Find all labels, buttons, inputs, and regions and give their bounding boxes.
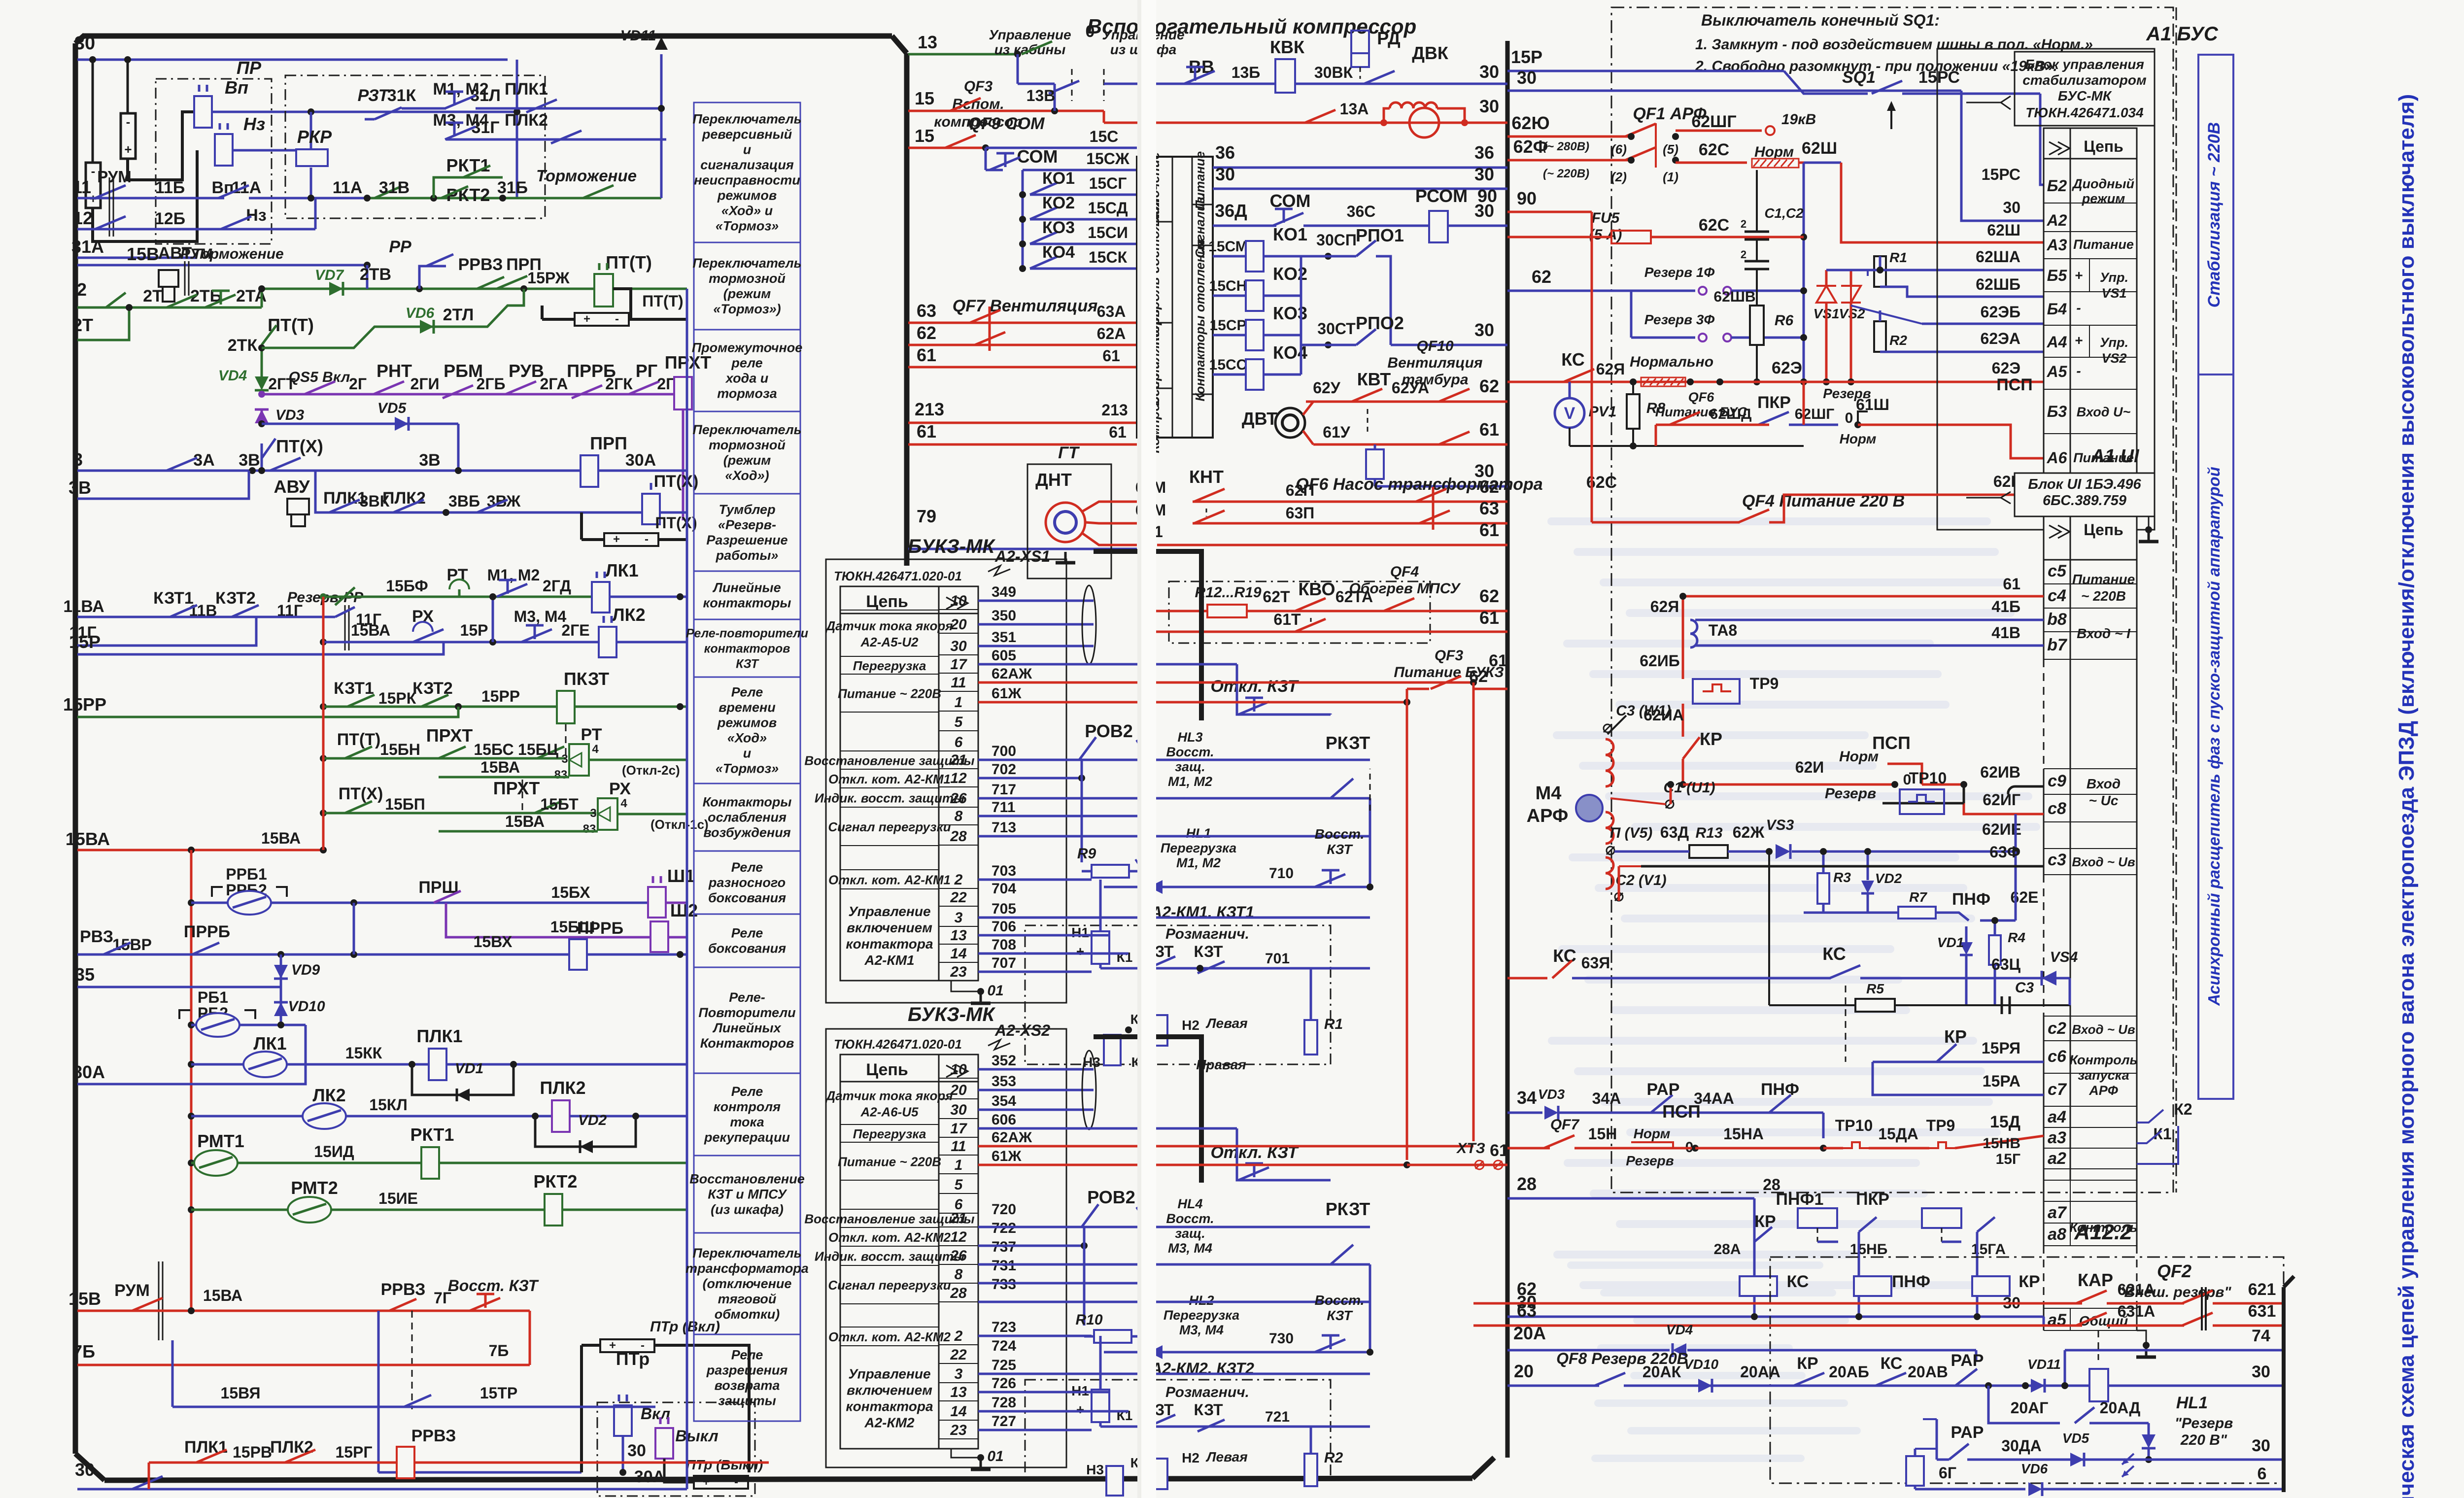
- rung PT(T) 15BN PRHT 15BS 15BTs RT: [320, 755, 327, 762]
- red riser x656: [322, 597, 325, 850]
- svg-text:2: 2: [954, 1328, 963, 1344]
- svg-text:15РР: 15РР: [481, 687, 520, 705]
- contactor Sh1: [648, 887, 666, 918]
- svg-text:VD3: VD3: [275, 407, 305, 423]
- svg-text:ПТ(Т): ПТ(Т): [606, 252, 652, 272]
- svg-text:Сигнал перегрузки: Сигнал перегрузки: [828, 1278, 951, 1293]
- wire 31 bus vertical: [660, 54, 663, 198]
- svg-text:36: 36: [1215, 142, 1235, 163]
- svg-text:74: 74: [2252, 1327, 2270, 1345]
- UI table: [2044, 516, 2137, 560]
- svg-text:63Ц: 63Ц: [1991, 955, 2021, 973]
- svg-text:62ШГ: 62ШГ: [1795, 406, 1835, 422]
- svg-text:РКТ2: РКТ2: [446, 185, 490, 205]
- svg-text:VD5: VD5: [2062, 1430, 2089, 1446]
- svg-text:15ВА: 15ВА: [351, 621, 390, 639]
- svg-text:20АД: 20АД: [2100, 1399, 2141, 1417]
- svg-text:РРВЗ: РРВЗ: [458, 255, 503, 274]
- svg-text:R10: R10: [1075, 1312, 1102, 1328]
- svg-text:15НА: 15НА: [1723, 1125, 1764, 1143]
- switch КО3: [1019, 240, 1026, 247]
- svg-text:c9: c9: [2048, 772, 2066, 790]
- svg-text:2: 2: [77, 279, 87, 300]
- svg-text:15Д: 15Д: [1990, 1113, 2020, 1131]
- svg-text:15БН: 15БН: [380, 741, 420, 758]
- svg-text:19кВ: 19кВ: [1781, 111, 1816, 128]
- svg-text:Вход U~: Вход U~: [2077, 405, 2131, 419]
- svg-text:36Д: 36Д: [1215, 201, 1247, 221]
- svg-text:Б3: Б3: [2047, 403, 2067, 420]
- battery GB1: [86, 163, 101, 208]
- svg-text:А4: А4: [2047, 333, 2067, 351]
- svg-text:11: 11: [72, 177, 91, 197]
- svg-text:Вход ~ I: Вход ~ I: [2077, 626, 2131, 641]
- svg-text:А5: А5: [2047, 363, 2068, 380]
- TR9 thermal: [1693, 679, 1740, 704]
- svg-text:Стабилизация ~ 220В: Стабилизация ~ 220В: [2205, 122, 2224, 307]
- svg-text:10: 10: [950, 1061, 967, 1078]
- svg-text:+: +: [2075, 268, 2083, 283]
- svg-text:2ГЕ: 2ГЕ: [561, 621, 589, 639]
- relay coil Nz: [215, 134, 233, 166]
- svg-text:А6: А6: [2047, 449, 2067, 467]
- svg-text:15СД: 15СД: [1088, 199, 1128, 217]
- svg-text:Вп: Вп: [225, 77, 248, 98]
- svg-text:VD2: VD2: [578, 1112, 607, 1128]
- svg-text:15БТ: 15БТ: [540, 795, 579, 813]
- svg-text:Б5: Б5: [2047, 267, 2068, 284]
- svg-text:ЛК1: ЛК1: [605, 560, 638, 580]
- description box: Переключатель: [694, 102, 800, 242]
- svg-text:Резерв: Резерв: [1825, 785, 1876, 802]
- svg-text:3В: 3В: [68, 477, 91, 498]
- svg-text:15Н: 15Н: [1588, 1125, 1617, 1143]
- long red risers to BUKZ2: [1406, 689, 1408, 1160]
- svg-text:Норм: Норм: [1754, 144, 1794, 160]
- svg-text:a4: a4: [2048, 1108, 2066, 1126]
- svg-text:ПТр (Выкл): ПТр (Выкл): [686, 1457, 763, 1472]
- VD1 R4 VS4 R5 C3: [1960, 942, 1973, 955]
- violet rung QS5 RNT RBM RUV PRRB RG: [258, 391, 265, 398]
- svg-text:КР: КР: [1700, 729, 1722, 749]
- svg-text:РУМ: РУМ: [114, 1281, 150, 1300]
- svg-text:62: 62: [1479, 477, 1499, 497]
- svg-text:7Б: 7Б: [489, 1342, 509, 1360]
- table 1: [840, 586, 978, 981]
- svg-text:2Г: 2Г: [349, 375, 367, 393]
- frame vertical border between left relay block and compressor section: [904, 53, 910, 566]
- wire 7G down: [529, 1311, 531, 1365]
- svg-text:83: 83: [583, 822, 596, 836]
- svg-text:15ВА: 15ВА: [505, 813, 545, 830]
- rung PT(X) 15BP PRHT 15BT RX: [320, 810, 327, 817]
- svg-text:61У: 61У: [1323, 423, 1351, 441]
- svg-text:Ш1: Ш1: [667, 866, 695, 886]
- rung 15VA RX 15R M3M4 2GE LK2: [320, 639, 327, 646]
- svg-text:a8: a8: [2048, 1225, 2066, 1244]
- svg-text:13В: 13В: [1027, 87, 1056, 104]
- svg-text:62ШВ: 62ШВ: [1713, 289, 1755, 305]
- svg-text:2ГА: 2ГА: [540, 375, 568, 393]
- svg-text:Откл. кот. А2-КМ1: Откл. кот. А2-КМ1: [828, 873, 951, 887]
- svg-text:349: 349: [992, 584, 1016, 600]
- svg-text:РР: РР: [389, 238, 411, 256]
- PNF switch and boxes: [1859, 1217, 1877, 1232]
- svg-text:Восстановление защиты: Восстановление защиты: [804, 753, 974, 768]
- svg-text:Резерв 3Ф: Резерв 3Ф: [1644, 312, 1715, 327]
- svg-text:15В: 15В: [127, 244, 159, 264]
- svg-text:15СР: 15СР: [1209, 317, 1246, 334]
- svg-text:ЛК2: ЛК2: [312, 1085, 345, 1105]
- svg-text:11: 11: [951, 675, 966, 691]
- svg-text:20АК: 20АК: [1643, 1363, 1681, 1381]
- svg-text:РАР: РАР: [1647, 1080, 1680, 1099]
- svg-text:3: 3: [590, 807, 596, 820]
- svg-text:R2: R2: [1324, 1450, 1343, 1466]
- contactor LK1: [592, 582, 610, 613]
- svg-text:ТЮКН.426471.034: ТЮКН.426471.034: [2025, 105, 2144, 120]
- svg-text:30: 30: [950, 638, 967, 654]
- svg-text:15СГ: 15СГ: [1089, 174, 1127, 192]
- svg-text:62Э: 62Э: [1772, 359, 1802, 377]
- rung Sh2: [446, 903, 650, 937]
- svg-text:705: 705: [992, 901, 1016, 917]
- svg-text:15РГ: 15РГ: [335, 1443, 372, 1461]
- svg-text:15РА: 15РА: [1983, 1072, 2020, 1090]
- relay PTr Vykl: [655, 1428, 673, 1459]
- R8: [1627, 394, 1640, 429]
- svg-text:VD9: VD9: [291, 962, 320, 978]
- svg-text:М3, М4: М3, М4: [514, 608, 567, 625]
- svg-text:79: 79: [917, 506, 936, 526]
- svg-text:15ВА: 15ВА: [203, 1287, 242, 1304]
- svg-text:15: 15: [915, 126, 934, 146]
- svg-text:VD5: VD5: [377, 400, 407, 416]
- SQ1 arrow: [1890, 103, 1892, 129]
- svg-text:КР: КР: [1754, 1212, 1776, 1231]
- relay RSOM: [1429, 211, 1448, 242]
- dash-dot box PTr: [597, 1402, 755, 1496]
- svg-text:2ГК: 2ГК: [605, 375, 633, 393]
- svg-text:30: 30: [2003, 199, 2020, 216]
- svg-text:Блок UI 1БЭ.4966БС.389.759: Блок UI 1БЭ.4966БС.389.759: [2028, 477, 2141, 509]
- svg-text:КО3: КО3: [1042, 218, 1075, 237]
- svg-text:28: 28: [950, 828, 967, 845]
- red 62I vertical to C1 tap: [1670, 784, 1672, 804]
- svg-text:83: 83: [554, 768, 568, 782]
- cable shield bar: [1094, 551, 1201, 720]
- svg-text:15СН: 15СН: [1209, 278, 1247, 294]
- svg-text:VS4: VS4: [2050, 949, 2078, 965]
- svg-text:61: 61: [1479, 608, 1499, 628]
- svg-text:КО2: КО2: [1042, 194, 1075, 212]
- svg-text:15РЖ: 15РЖ: [527, 269, 570, 287]
- svg-text:КВТ: КВТ: [1357, 369, 1391, 389]
- svg-text:730: 730: [1269, 1330, 1294, 1347]
- svg-text:КС: КС: [1561, 349, 1585, 370]
- svg-text:РМТ1: РМТ1: [197, 1131, 244, 1151]
- blue branch VD5: [258, 420, 265, 427]
- svg-text:(6): (6): [1611, 142, 1627, 157]
- svg-text:726: 726: [992, 1375, 1016, 1392]
- svg-text:41Б: 41Б: [1991, 598, 2020, 615]
- svg-text:R6: R6: [1775, 312, 1794, 329]
- svg-text:63Ф: 63Ф: [1989, 843, 2020, 861]
- svg-text:VD10: VD10: [288, 998, 325, 1015]
- svg-text:ПНФ1: ПНФ1: [1776, 1190, 1824, 1209]
- svg-text:30: 30: [1474, 320, 1494, 340]
- R3 VD2 R7 PNF 62E: [1817, 873, 1829, 904]
- svg-text:Б2: Б2: [2047, 177, 2067, 195]
- svg-text:V: V: [1564, 404, 1575, 423]
- svg-text:15БЦ: 15БЦ: [518, 741, 559, 758]
- svg-text:-: -: [126, 114, 131, 129]
- svg-text:Цепь: Цепь: [866, 1060, 908, 1079]
- rise to green bus 586: [262, 289, 367, 307]
- svg-text:РТ: РТ: [581, 725, 602, 744]
- svg-text:Н2: Н2: [1182, 1450, 1199, 1465]
- svg-text:61Ж: 61Ж: [992, 685, 1022, 702]
- svg-text:ПЛК1: ПЛК1: [505, 80, 548, 99]
- svg-text:Норм: Норм: [1839, 749, 1879, 765]
- svg-text:30: 30: [1479, 96, 1499, 116]
- svg-text:711: 711: [992, 799, 1015, 816]
- svg-text:31А: 31А: [71, 237, 104, 257]
- svg-text:ПРХТ: ПРХТ: [426, 725, 473, 746]
- svg-text:a3: a3: [2048, 1128, 2066, 1147]
- svg-text:62АЖ: 62АЖ: [992, 666, 1032, 682]
- svg-text:15В: 15В: [68, 1289, 101, 1309]
- svg-text:721: 721: [1265, 1409, 1290, 1425]
- svg-text:R5: R5: [1866, 981, 1884, 996]
- vertical 62Sh: [1803, 163, 1805, 382]
- svg-text:61: 61: [2003, 575, 2020, 593]
- svg-text:15СЖ: 15СЖ: [1086, 150, 1130, 168]
- svg-text:"Резерв220 В": "Резерв220 В": [2175, 1415, 2233, 1448]
- svg-text:706: 706: [992, 919, 1016, 935]
- svg-text:+: +: [613, 533, 620, 546]
- svg-text:213: 213: [915, 399, 944, 419]
- HL1 LED: [2142, 1434, 2156, 1448]
- svg-text:3А: 3А: [193, 451, 214, 470]
- svg-text:62ИБ: 62ИБ: [1640, 652, 1680, 670]
- svg-text:62У: 62У: [1313, 379, 1341, 397]
- svg-text:30ВК: 30ВК: [1314, 64, 1353, 81]
- 20AG 20AD HL1: [1988, 1386, 2060, 1423]
- svg-text:ПНФ: ПНФ: [1761, 1080, 1799, 1099]
- svg-text:2ТВ: 2ТВ: [360, 265, 391, 284]
- svg-text:А2-XS2: А2-XS2: [994, 1021, 1050, 1039]
- svg-text:15ДА: 15ДА: [1878, 1125, 1918, 1143]
- svg-text:710: 710: [1269, 865, 1294, 882]
- svg-text:15Р: 15Р: [460, 621, 488, 639]
- svg-text:20АБ: 20АБ: [1829, 1363, 1869, 1381]
- svg-text:РД: РД: [1377, 28, 1400, 48]
- svg-text:КО1: КО1: [1273, 224, 1307, 244]
- main schematic frame, left page: [83, 34, 892, 39]
- svg-text:22: 22: [950, 889, 967, 906]
- svg-text:ПТ(Х): ПТ(Х): [276, 436, 323, 456]
- svg-text:РКТ1: РКТ1: [446, 155, 490, 175]
- svg-text:Н2: Н2: [1182, 1018, 1199, 1033]
- svg-text:3: 3: [955, 1366, 963, 1382]
- svg-text:1: 1: [955, 694, 963, 711]
- svg-text:Контакторы отопления: Контакторы отопления: [1193, 239, 1207, 402]
- rung 15RR KZT1 KZT2 PKZT: [320, 703, 327, 710]
- svg-text:ДНТ: ДНТ: [1035, 470, 1072, 490]
- svg-text:VD4: VD4: [218, 368, 247, 384]
- svg-text:62Ж: 62Ж: [1733, 823, 1765, 841]
- svg-text:Левая: Левая: [1205, 1016, 1247, 1031]
- svg-text:621А: 621А: [2118, 1281, 2156, 1298]
- svg-text:15РС: 15РС: [1918, 68, 1960, 87]
- relay RRVZ red: [397, 1447, 414, 1478]
- svg-text:VD11: VD11: [2027, 1357, 2061, 1372]
- dash-dot assembly frame: [1611, 7, 2173, 1192]
- svg-text:К1: К1: [1117, 950, 1133, 965]
- svg-text:ПТ(Х): ПТ(Х): [654, 472, 699, 491]
- PT(T) battery: [613, 289, 687, 319]
- svg-text:15СК: 15СК: [1089, 248, 1128, 266]
- pressure relay RD: [1351, 31, 1369, 53]
- svg-text:-: -: [615, 312, 619, 326]
- svg-text:R13: R13: [1695, 825, 1722, 841]
- AVT device: [159, 270, 178, 287]
- svg-text:5: 5: [955, 714, 963, 730]
- svg-text:КВО: КВО: [1298, 579, 1335, 599]
- svg-text:Перегрузка: Перегрузка: [853, 658, 926, 673]
- description box: Реле: [694, 914, 800, 967]
- KZT1 dashed box: [1025, 925, 1331, 1064]
- svg-text:Нз: Нз: [246, 206, 266, 225]
- svg-text:c5: c5: [2048, 562, 2067, 580]
- svg-text:ПРРБ: ПРРБ: [184, 922, 230, 941]
- svg-text:713: 713: [992, 819, 1016, 836]
- relay coil RKR: [296, 149, 328, 166]
- svg-text:15ИД: 15ИД: [314, 1143, 354, 1160]
- KAR relay coil: [2089, 1369, 2108, 1401]
- svg-text:63А: 63А: [1097, 303, 1126, 320]
- svg-text:ПСП: ПСП: [1662, 1101, 1701, 1122]
- svg-text:63: 63: [917, 301, 936, 321]
- RAR coil bottom: [1936, 1419, 1938, 1460]
- svg-text:62Э: 62Э: [1992, 359, 2020, 377]
- svg-text:30: 30: [74, 33, 95, 54]
- svg-text:QF6 Насос трансформатора: QF6 Насос трансформатора: [1296, 475, 1542, 494]
- svg-text:ПТр: ПТр: [616, 1349, 650, 1369]
- svg-text:КВК: КВК: [1270, 37, 1305, 57]
- svg-text:15КЛ: 15КЛ: [369, 1096, 408, 1114]
- svg-text:БУКЗ-МК: БУКЗ-МК: [908, 1004, 995, 1025]
- svg-text:702: 702: [992, 761, 1016, 778]
- svg-text:15РР: 15РР: [63, 694, 106, 715]
- svg-text:703: 703: [992, 863, 1016, 879]
- svg-text:701: 701: [1265, 951, 1290, 967]
- R6: [1750, 306, 1764, 345]
- svg-text:Торможение: Торможение: [536, 167, 637, 185]
- svg-text:ПРХТ: ПРХТ: [493, 778, 540, 798]
- svg-text:Откл. кот. А2-КМ2: Откл. кот. А2-КМ2: [828, 1329, 951, 1344]
- svg-text:ПТр (Вкл): ПТр (Вкл): [650, 1319, 720, 1335]
- svg-text:c8: c8: [2048, 799, 2066, 818]
- svg-text:15РС: 15РС: [1982, 166, 2020, 183]
- contactor LK2: [599, 627, 616, 657]
- svg-text:1: 1: [955, 1157, 963, 1173]
- svg-text:Норм: Норм: [1840, 431, 1877, 446]
- svg-text:С1,С2: С1,С2: [1764, 205, 1804, 221]
- R1: [1304, 1020, 1317, 1055]
- svg-text:КО4: КО4: [1042, 243, 1075, 262]
- svg-text:61: 61: [1479, 419, 1499, 440]
- svg-text:ПСП: ПСП: [1996, 375, 2032, 394]
- svg-text:30ДА: 30ДА: [2001, 1437, 2042, 1455]
- svg-text:20АА: 20АА: [1740, 1363, 1780, 1381]
- svg-text:SQ1: SQ1: [1842, 68, 1876, 87]
- svg-text:ПТ(Х): ПТ(Х): [655, 514, 697, 532]
- svg-text:VD1: VD1: [455, 1060, 483, 1077]
- svg-text:КО1: КО1: [1042, 169, 1075, 188]
- svg-text:ПНФ: ПНФ: [1952, 890, 1990, 909]
- svg-text:62: 62: [917, 323, 936, 343]
- PV1 voltmeter: [1555, 398, 1584, 428]
- faint show-through text: [1547, 517, 1991, 525]
- svg-text:РБ1: РБ1: [198, 988, 228, 1006]
- svg-text:20А: 20А: [1513, 1323, 1546, 1343]
- description box: Реле: [694, 677, 800, 783]
- svg-text:Восст. КЗТ: Восст. КЗТ: [448, 1277, 539, 1294]
- svg-text:ТР10: ТР10: [1835, 1117, 1873, 1134]
- bottom loop R5 C3: [1768, 851, 1770, 1005]
- svg-text:(Откл-1с): (Откл-1с): [650, 817, 709, 832]
- svg-text:VD10: VD10: [1684, 1357, 1718, 1372]
- svg-text:15ВХ: 15ВХ: [474, 933, 513, 951]
- svg-text:704: 704: [992, 881, 1016, 897]
- description box: Переключатель: [694, 242, 800, 330]
- svg-text:Цепь: Цепь: [2084, 137, 2123, 155]
- svg-text:62АЖ: 62АЖ: [992, 1129, 1032, 1146]
- svg-text:15Г: 15Г: [1996, 1151, 2020, 1167]
- svg-text:62С: 62С: [1699, 216, 1729, 235]
- svg-text:62УА: 62УА: [1392, 379, 1429, 397]
- description box: Переключатель: [694, 411, 800, 494]
- svg-text:Резерв 1Ф: Резерв 1Ф: [1644, 265, 1715, 280]
- svg-text:Управлениеиз кабины: Управлениеиз кабины: [989, 27, 1071, 57]
- svg-text:c6: c6: [2048, 1047, 2067, 1066]
- svg-text:63Д: 63Д: [1660, 823, 1689, 841]
- svg-text:КНТ: КНТ: [1189, 467, 1224, 487]
- svg-text:ПКР: ПКР: [1757, 393, 1791, 412]
- svg-text:62ША: 62ША: [1976, 248, 2020, 266]
- svg-text:34А: 34А: [1592, 1089, 1621, 1107]
- svg-text:VS3: VS3: [1766, 817, 1794, 833]
- svg-text:31Б: 31Б: [497, 178, 528, 197]
- svg-text:Выкл: Выкл: [675, 1427, 718, 1445]
- relay PRP: [581, 455, 598, 487]
- svg-text:QF2: QF2: [2157, 1261, 2191, 1281]
- svg-text:15ВА: 15ВА: [480, 758, 520, 776]
- svg-text:КС: КС: [1822, 944, 1846, 964]
- svg-text:+: +: [2075, 333, 2083, 348]
- svg-text:QF7 Вентиляция: QF7 Вентиляция: [953, 297, 1098, 315]
- relay PKZT: [557, 691, 575, 723]
- svg-text:30: 30: [1215, 164, 1235, 184]
- svg-text:Откл. кот. А2-КМ1: Откл. кот. А2-КМ1: [828, 772, 951, 786]
- svg-text:КР: КР: [2019, 1272, 2040, 1291]
- HL1 LED on wire 710: [1149, 880, 1163, 894]
- svg-text:ПНФ: ПНФ: [1892, 1272, 1930, 1291]
- svg-text:КАР: КАР: [2078, 1270, 2113, 1290]
- thick vertical bus border, middle page right edge: [1506, 41, 1510, 1458]
